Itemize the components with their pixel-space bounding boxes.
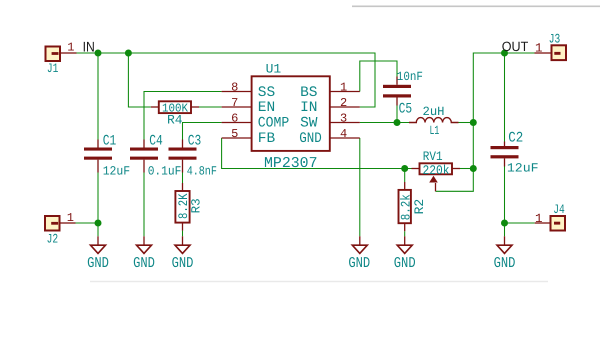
svg-text:BS: BS: [300, 85, 317, 101]
svg-text:U1: U1: [266, 62, 282, 77]
svg-text:R4: R4: [167, 113, 183, 128]
svg-text:J1: J1: [47, 61, 59, 76]
svg-text:J4: J4: [553, 202, 565, 217]
svg-text:1: 1: [340, 80, 347, 94]
svg-text:1: 1: [535, 41, 543, 55]
svg-text:R2: R2: [412, 199, 427, 215]
svg-text:R3: R3: [190, 198, 204, 213]
svg-text:COMP: COMP: [258, 115, 290, 131]
svg-text:GND: GND: [133, 255, 155, 272]
svg-text:MP2307: MP2307: [264, 155, 318, 172]
svg-text:C5: C5: [399, 102, 413, 118]
svg-text:12uF: 12uF: [507, 162, 539, 176]
svg-text:4: 4: [340, 127, 347, 141]
svg-text:C4: C4: [149, 134, 163, 150]
svg-text:C1: C1: [103, 134, 117, 150]
svg-text:2uH: 2uH: [423, 105, 445, 119]
svg-text:J2: J2: [47, 232, 59, 247]
svg-text:1: 1: [535, 212, 543, 226]
svg-text:SS: SS: [258, 85, 275, 101]
svg-text:RV1: RV1: [423, 149, 443, 164]
svg-text:GND: GND: [87, 255, 109, 272]
svg-text:10nF: 10nF: [397, 70, 423, 84]
svg-text:1: 1: [67, 41, 74, 55]
svg-text:6: 6: [231, 111, 238, 125]
svg-text:IN: IN: [83, 39, 95, 55]
svg-text:5: 5: [231, 127, 238, 141]
svg-text:8: 8: [231, 80, 238, 94]
svg-text:FB: FB: [258, 131, 276, 147]
svg-text:GND: GND: [494, 255, 516, 272]
svg-text:J3: J3: [549, 32, 561, 47]
svg-text:L1: L1: [430, 124, 440, 138]
svg-text:2: 2: [340, 96, 347, 110]
svg-text:C3: C3: [188, 134, 202, 150]
svg-text:1: 1: [67, 211, 74, 225]
svg-text:0.1uF: 0.1uF: [148, 164, 182, 178]
svg-text:12uF: 12uF: [103, 164, 131, 178]
svg-text:4.8nF: 4.8nF: [187, 164, 217, 178]
svg-text:IN: IN: [300, 100, 317, 116]
svg-text:SW: SW: [300, 115, 318, 131]
svg-text:C2: C2: [508, 131, 523, 147]
svg-text:OUT: OUT: [502, 39, 529, 54]
svg-text:GND: GND: [394, 255, 416, 272]
svg-text:GND: GND: [172, 255, 194, 272]
svg-text:7: 7: [231, 96, 238, 110]
svg-text:3: 3: [340, 111, 347, 125]
svg-text:EN: EN: [258, 100, 275, 116]
svg-text:GND: GND: [299, 131, 322, 147]
svg-text:GND: GND: [348, 255, 370, 272]
svg-text:220k: 220k: [423, 163, 450, 178]
